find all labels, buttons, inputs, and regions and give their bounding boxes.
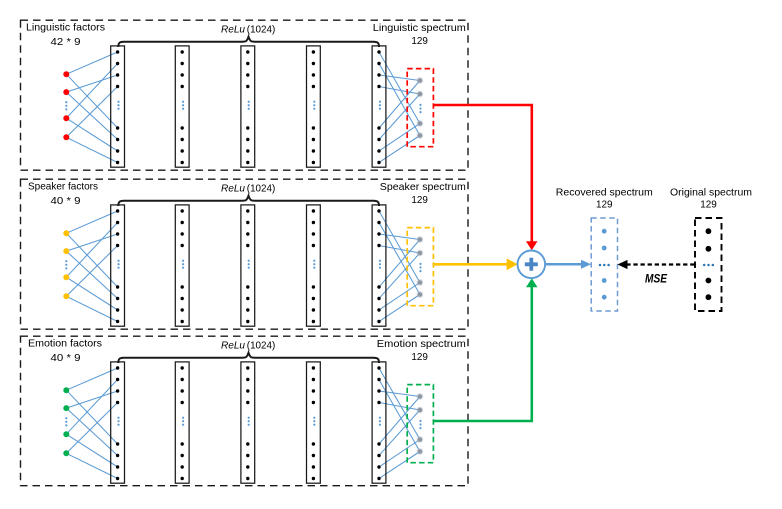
wire: green emotion-spectrum arrow (433, 278, 537, 421)
svg-text:129: 129 (411, 36, 428, 47)
label: Linguistic factors (26, 23, 105, 48)
subnet 2 (speaker): outer dashed frame (21, 179, 469, 329)
label: Emotion spectrum 129 (377, 339, 466, 363)
wire: input-to-hidden connections (66, 211, 117, 322)
input nodes (speaker factors, #ffc000) (63, 230, 69, 299)
hidden layer L4 (307, 205, 321, 326)
output nodes: speaker spectrum (#ffc000 dashed) (407, 228, 433, 306)
hidden layer L1 (111, 205, 125, 326)
svg-text:Speaker spectrum: Speaker spectrum (380, 182, 466, 193)
adder: plus circle (518, 250, 546, 278)
svg-text:(1024): (1024) (247, 340, 275, 351)
output nodes: linguistic spectrum (#ff0000 dashed) (407, 69, 433, 147)
input nodes (emotion factors, #00b050) (63, 387, 69, 456)
svg-text:Speaker factors: Speaker factors (28, 182, 98, 193)
hidden layer L4 (307, 46, 321, 167)
svg-text:ReLu: ReLu (221, 24, 245, 35)
input column ellipsis (65, 417, 67, 426)
wire: hidden-to-output connections (379, 368, 420, 479)
svg-text:129: 129 (596, 200, 613, 211)
svg-text:129: 129 (411, 195, 428, 206)
hidden layer L5 (372, 46, 386, 167)
hidden layer L1 (111, 362, 125, 483)
output nodes: emotion spectrum (#00b050 dashed) (407, 385, 433, 463)
hidden layer L3 (241, 362, 255, 483)
svg-text:MSE: MSE (645, 273, 667, 285)
svg-text:Original spectrum: Original spectrum (670, 187, 752, 198)
svg-text:(1024): (1024) (247, 24, 275, 35)
hidden layer L1 (111, 46, 125, 167)
hidden layer L2 (175, 205, 189, 326)
hidden layer L4 (307, 362, 321, 483)
label: Original spectrum 129 (670, 187, 752, 210)
svg-text:129: 129 (411, 352, 428, 363)
wire: input-to-hidden connections (66, 368, 117, 479)
wire: MSE dashed arrow (618, 260, 695, 269)
label: Recovered spectrum 129 (556, 187, 653, 210)
brace: hidden-layer span bracket (118, 353, 379, 363)
svg-text:Emotion factors: Emotion factors (28, 339, 102, 350)
svg-text:40 * 9: 40 * 9 (51, 353, 81, 364)
svg-text:ReLu: ReLu (221, 340, 245, 351)
svg-text:Linguistic spectrum: Linguistic spectrum (373, 23, 466, 34)
svg-text:Emotion spectrum: Emotion spectrum (377, 339, 466, 350)
brace: hidden-layer span bracket (118, 37, 379, 47)
node: original spectrum (black dashed) (695, 218, 722, 311)
subnet 1 (linguistic): outer dashed frame (21, 20, 469, 170)
svg-text:129: 129 (700, 200, 717, 211)
hidden layer L2 (175, 46, 189, 167)
svg-text:42 * 9: 42 * 9 (51, 37, 81, 48)
label: ReLu (1024) (221, 340, 275, 351)
label: Speaker spectrum 129 (380, 182, 466, 206)
svg-text:Recovered spectrum: Recovered spectrum (556, 187, 653, 198)
wire: hidden-to-output connections (379, 211, 420, 322)
wire: yellow speaker-spectrum arrow (433, 258, 517, 270)
label: Linguistic spectrum 129 (373, 23, 466, 47)
label: Speaker factors (28, 182, 98, 207)
wire: hidden-to-output connections (379, 52, 420, 163)
brace: hidden-layer span bracket (118, 196, 379, 206)
hidden layer L2 (175, 362, 189, 483)
node: recovered spectrum (blue dashed) (591, 218, 617, 311)
wire: blue arrow to recovered spectrum (545, 260, 591, 269)
subnet 3 (emotion): outer dashed frame (21, 336, 469, 486)
label: ReLu (1024) (221, 183, 275, 194)
wire: red linguistic-spectrum arrow (433, 105, 537, 250)
input column ellipsis (65, 260, 67, 269)
input nodes (linguistic factors, #ff0000) (63, 71, 69, 140)
hidden layer L5 (372, 205, 386, 326)
wire: input-to-hidden connections (66, 52, 117, 163)
hidden layer L5 (372, 362, 386, 483)
svg-text:Linguistic factors: Linguistic factors (26, 23, 105, 34)
input column ellipsis (65, 101, 67, 110)
svg-text:ReLu: ReLu (221, 183, 245, 194)
label: ReLu (1024) (221, 24, 275, 35)
hidden layer L3 (241, 205, 255, 326)
svg-text:40 * 9: 40 * 9 (51, 196, 81, 207)
svg-text:(1024): (1024) (247, 183, 275, 194)
hidden layer L3 (241, 46, 255, 167)
label: Emotion factors (28, 339, 102, 364)
